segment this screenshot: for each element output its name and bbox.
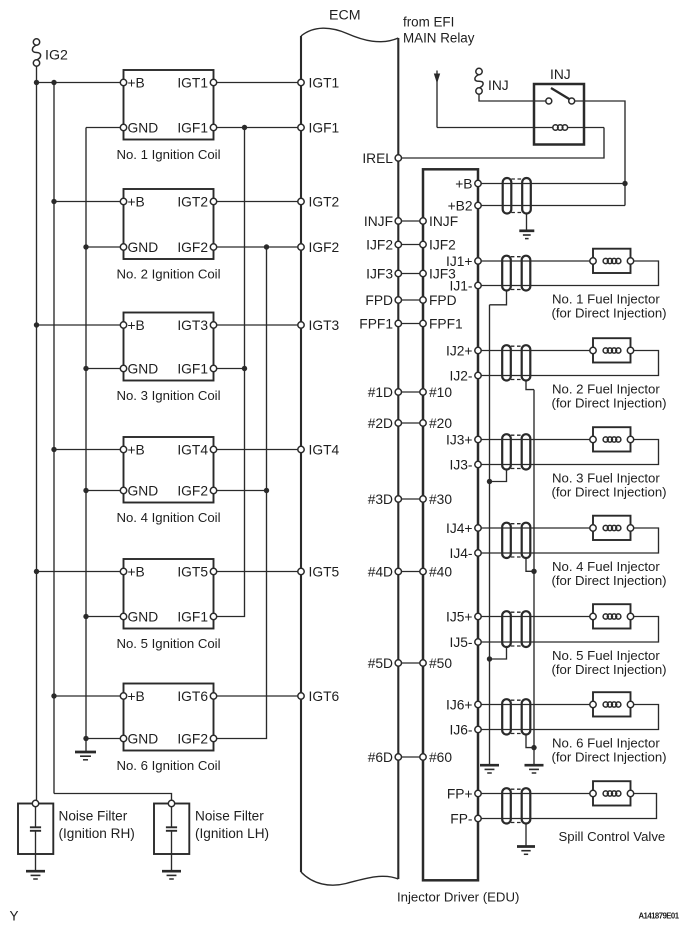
svg-text:No. 1 Fuel Injector: No. 1 Fuel Injector — [552, 292, 660, 307]
ECM terminal IGT3 — [298, 322, 304, 328]
fuel injector 5 — [593, 604, 631, 628]
svg-text:IJ2+: IJ2+ — [446, 344, 472, 359]
wire FP- loop — [481, 794, 656, 819]
junction dot GND coil 5 — [83, 614, 88, 619]
ground below GND bus — [75, 751, 96, 754]
noise filter (LH) box — [154, 804, 189, 855]
svg-text:+B2: +B2 — [448, 199, 473, 214]
EDU terminal FP+ — [475, 790, 481, 796]
wire FP+ to valve — [481, 793, 590, 795]
ECM terminal IGF2 — [298, 244, 304, 250]
wire IGF2 coil4 stub — [216, 490, 266, 492]
svg-text:FPD: FPD — [365, 293, 393, 308]
wire to noise filter LH — [54, 794, 172, 801]
cross wire #1D to #10 — [402, 391, 420, 393]
svg-text:GND: GND — [128, 240, 159, 255]
cross wire IJF2 to IJF2 — [402, 244, 420, 246]
junction dot +B coil 3 — [34, 322, 39, 327]
svg-text:+B: +B — [128, 689, 145, 704]
svg-text:Noise Filter: Noise Filter — [59, 809, 128, 824]
wire shield drain IJ3 — [490, 470, 507, 482]
wire +B — [481, 183, 625, 185]
ECM right edge — [397, 38, 399, 879]
svg-text:+B: +B — [128, 76, 145, 91]
svg-text:IJ4+: IJ4+ — [446, 521, 472, 536]
svg-text:(Ignition LH): (Ignition LH) — [195, 826, 269, 841]
fuel injector 2 — [593, 338, 631, 362]
spill control valve box — [593, 781, 631, 805]
wire GND coil 2 — [86, 246, 121, 248]
EDU terminal IJ3+ — [475, 436, 481, 442]
ECM bottom wave — [301, 872, 398, 885]
svg-text:GND: GND — [128, 362, 159, 377]
cross wire IJF3 to IJF3 — [402, 273, 420, 275]
svg-text:#6D: #6D — [368, 750, 393, 765]
svg-text:IJ6+: IJ6+ — [446, 698, 472, 713]
wire shield drain FP — [525, 824, 527, 846]
svg-text:GND: GND — [128, 484, 159, 499]
ground noise filter LH — [162, 870, 181, 873]
svg-text:IJ6-: IJ6- — [450, 723, 473, 738]
svg-text:#60: #60 — [429, 750, 452, 765]
ECM top wave — [301, 28, 398, 42]
wire shield drain bus right — [533, 390, 535, 766]
cross wire #4D to #40 — [402, 571, 420, 573]
wire +B feed coil 3 — [37, 324, 121, 326]
ECM terminal IGT5 — [298, 568, 304, 574]
junction dot drain IJ3 — [487, 479, 492, 484]
shield IJ1 — [502, 256, 511, 291]
svg-text:Spill Control Valve: Spill Control Valve — [559, 829, 666, 844]
wire IJ4+ to injector — [481, 527, 590, 529]
wire IJ5+ to injector — [481, 616, 590, 618]
wire IGT1 to ECM — [216, 82, 298, 84]
wire vertical +B bus 1 — [36, 83, 38, 801]
shield IJ4 — [502, 523, 511, 558]
cross wire #3D to #30 — [402, 498, 420, 500]
wire relay coil out — [568, 127, 604, 129]
wire +B feed coil 6 — [54, 695, 121, 697]
ECM terminal IGT2 — [298, 198, 304, 204]
wire +B feed coil 5 — [37, 571, 121, 573]
junction dot +B coil 2 — [51, 199, 56, 204]
cross wire FPF1 to FPF1 — [402, 323, 420, 325]
noise filter (RH) box — [18, 804, 53, 855]
injector driver EDU box — [423, 169, 478, 880]
svg-text:+B: +B — [128, 443, 145, 458]
ECM terminal IREL — [395, 155, 401, 161]
ignition coil 4 box — [124, 437, 214, 503]
arrowhead EFI — [434, 74, 440, 84]
connector INJ fuse — [476, 68, 482, 74]
shield IJ3 — [502, 434, 511, 469]
ground drain bus right — [525, 764, 544, 767]
wire IJ3+ to injector — [481, 439, 590, 441]
svg-text:INJ: INJ — [488, 78, 509, 93]
svg-text:+B: +B — [128, 318, 145, 333]
relay coil — [553, 125, 558, 130]
wire relay coil in — [437, 127, 553, 129]
svg-text:#20: #20 — [429, 416, 452, 431]
EDU terminal IJ2+ — [475, 347, 481, 353]
wire GND coil 4 — [86, 490, 121, 492]
junction dot drain IJ5 — [487, 656, 492, 661]
svg-text:No. 4 Fuel Injector: No. 4 Fuel Injector — [552, 559, 660, 574]
EDU terminal IJ3- — [475, 461, 481, 467]
shield IJ6 — [502, 699, 511, 734]
svg-text:#4D: #4D — [368, 565, 393, 580]
svg-text:#1D: #1D — [368, 385, 393, 400]
shield +B/+B2 — [503, 178, 512, 214]
svg-text:#40: #40 — [429, 565, 452, 580]
svg-text:#50: #50 — [429, 656, 452, 671]
svg-text:(for Direct Injection): (for Direct Injection) — [552, 306, 667, 321]
svg-text:IGF2: IGF2 — [177, 732, 208, 747]
wire IGF2 bus — [216, 247, 266, 739]
svg-text:IJF2: IJF2 — [366, 238, 393, 253]
svg-text:IJ5-: IJ5- — [450, 635, 473, 650]
junction dot +B coil 6 — [51, 693, 56, 698]
ignition coil 5 box — [124, 559, 214, 629]
wire +B feed coil 4 — [54, 449, 121, 451]
EDU terminal +B — [475, 180, 481, 186]
shield IJ2 — [502, 345, 511, 380]
connector IG2 — [33, 39, 39, 45]
junction dot bus1 coil1 +B — [34, 80, 39, 85]
svg-text:from EFI: from EFI — [403, 15, 454, 30]
wire IJ6- loop — [481, 705, 658, 730]
svg-text:MAIN Relay: MAIN Relay — [403, 31, 475, 46]
wire IGF1 coil3 stub — [216, 368, 244, 370]
svg-text:IJ2-: IJ2- — [450, 369, 473, 384]
cross wire INJF to INJF — [402, 220, 420, 222]
ECM terminal IGT4 — [298, 446, 304, 452]
svg-text:INJF: INJF — [429, 214, 458, 229]
wire +B shield drain — [526, 214, 528, 230]
svg-text:IGT6: IGT6 — [177, 689, 208, 704]
junction dot drain IJ4 — [531, 569, 536, 574]
cross wire #5D to #50 — [402, 662, 420, 664]
junction dot GND coil 4 — [83, 488, 88, 493]
EDU terminal +B2 — [475, 202, 481, 208]
relay switch contact left — [546, 98, 552, 104]
wire shield drain IJ6 — [526, 735, 534, 748]
svg-text:GND: GND — [128, 732, 159, 747]
ignition coil 1 box — [124, 70, 214, 140]
svg-text:FP-: FP- — [450, 812, 472, 827]
wire IGF1 bus — [216, 128, 244, 617]
wire IJ4- loop — [481, 528, 658, 553]
wire vertical GND bus — [85, 128, 87, 753]
EDU terminal IJ1- — [475, 282, 481, 288]
svg-text:(for Direct Injection): (for Direct Injection) — [552, 750, 667, 765]
junction dot bus2 coil1 +B — [51, 80, 56, 85]
wire IGT2 to ECM — [216, 201, 298, 203]
svg-text:IGF1: IGF1 — [309, 121, 340, 136]
wire +B feed coil 2 — [54, 201, 121, 203]
fuel injector 4 — [593, 516, 631, 540]
EDU terminal IJ5+ — [475, 613, 481, 619]
junction dot IGF2 bus top — [264, 244, 269, 249]
wire +B2 — [481, 205, 625, 207]
wire relay switch out — [575, 101, 625, 206]
wire IGT6 to ECM — [216, 695, 298, 697]
svg-text:+B: +B — [128, 565, 145, 580]
svg-text:FPF1: FPF1 — [429, 317, 463, 332]
junction dot +B relay — [622, 181, 627, 186]
svg-text:GND: GND — [128, 610, 159, 625]
junction dot +B coil 4 — [51, 447, 56, 452]
wire IGF2 coil2 to ECM — [216, 246, 298, 248]
EDU terminal IJ6+ — [475, 701, 481, 707]
EDU terminal IJ1+ — [475, 258, 481, 264]
svg-text:IJ4-: IJ4- — [450, 546, 473, 561]
EDU terminal IJ5- — [475, 639, 481, 645]
wire GND coil 5 — [86, 616, 121, 618]
svg-text:No. 5 Ignition Coil: No. 5 Ignition Coil — [116, 636, 220, 651]
junction dot drain IJ6 — [531, 745, 536, 750]
wire IJ5- loop — [481, 617, 658, 643]
svg-text:IGF2: IGF2 — [177, 240, 208, 255]
svg-text:IGT4: IGT4 — [177, 443, 208, 458]
svg-text:(for Direct Injection): (for Direct Injection) — [552, 485, 667, 500]
ground noise filter RH — [26, 870, 45, 873]
wire shield drain IJ2 — [526, 381, 534, 390]
ignition coil 6 box — [124, 684, 214, 751]
svg-text:No. 6 Ignition Coil: No. 6 Ignition Coil — [116, 758, 220, 773]
svg-text:Injector Driver (EDU): Injector Driver (EDU) — [397, 890, 519, 905]
svg-text:A141879E01: A141879E01 — [638, 911, 679, 920]
EDU terminal IJ2- — [475, 372, 481, 378]
junction dot IGF1 coil3 — [242, 366, 247, 371]
ECM terminal IGF1 — [298, 124, 304, 130]
svg-text:#30: #30 — [429, 492, 452, 507]
svg-text:IJ1+: IJ1+ — [446, 254, 472, 269]
svg-text:No. 3 Ignition Coil: No. 3 Ignition Coil — [116, 388, 220, 403]
svg-text:No. 1 Ignition Coil: No. 1 Ignition Coil — [116, 147, 220, 162]
wire shield drain IJ4 — [526, 558, 534, 571]
svg-text:+B: +B — [455, 177, 472, 192]
ECM terminal IGT6 — [298, 693, 304, 699]
svg-text:ECM: ECM — [329, 8, 361, 24]
junction dot +B coil 5 — [34, 569, 39, 574]
EDU terminal IJ4+ — [475, 525, 481, 531]
wire GND coil 3 — [86, 368, 121, 370]
svg-text:(for Direct Injection): (for Direct Injection) — [552, 662, 667, 677]
svg-text:IJ1-: IJ1- — [450, 279, 473, 294]
svg-text:(Ignition RH): (Ignition RH) — [59, 826, 135, 841]
wire GND coil 1 to GND bus — [86, 127, 121, 129]
wire IJ2- loop — [481, 351, 658, 376]
svg-text:FP+: FP+ — [447, 787, 473, 802]
svg-text:IGF2: IGF2 — [309, 240, 340, 255]
wire IJ6+ to injector — [481, 704, 590, 706]
junction dot GND coil 3 — [83, 366, 88, 371]
ignition coil 2 box — [124, 189, 214, 259]
svg-text:GND: GND — [128, 121, 159, 136]
svg-text:FPD: FPD — [429, 293, 457, 308]
wire from EFI MAIN relay — [436, 71, 438, 128]
svg-text:IGT1: IGT1 — [177, 76, 208, 91]
relay switch blade — [551, 88, 569, 99]
wire shield drain IJ1 — [490, 291, 507, 305]
svg-text:IGT3: IGT3 — [309, 318, 340, 333]
svg-text:IGT5: IGT5 — [177, 565, 208, 580]
ground FP shield — [517, 845, 535, 848]
svg-text:#2D: #2D — [368, 416, 393, 431]
relay INJ box — [534, 84, 584, 145]
svg-text:No. 2 Fuel Injector: No. 2 Fuel Injector — [552, 382, 660, 397]
wire shield drain bus left — [489, 305, 491, 765]
wire GND coil 6 — [86, 738, 121, 740]
shield IJ5 — [502, 611, 511, 647]
svg-text:IJ5+: IJ5+ — [446, 610, 472, 625]
junction dot GND coil 6 — [83, 736, 88, 741]
wire IJ3- loop — [481, 440, 658, 465]
EDU terminal IJ4- — [475, 550, 481, 556]
svg-text:(for Direct Injection): (for Direct Injection) — [552, 396, 667, 411]
ECM left edge — [300, 36, 302, 872]
svg-text:No. 6 Fuel Injector: No. 6 Fuel Injector — [552, 736, 660, 751]
cross wire FPD to FPD — [402, 299, 420, 301]
svg-text:IGT5: IGT5 — [309, 565, 340, 580]
svg-text:INJ: INJ — [550, 67, 571, 82]
wire IG2 down to +B bus — [36, 66, 38, 82]
svg-text:IG2: IG2 — [45, 48, 68, 64]
svg-text:#10: #10 — [429, 385, 452, 400]
svg-text:IGF1: IGF1 — [177, 121, 208, 136]
svg-text:IJ3-: IJ3- — [450, 458, 473, 473]
svg-text:IGT2: IGT2 — [309, 195, 340, 210]
svg-text:IJF2: IJF2 — [429, 238, 456, 253]
fuel injector 3 — [593, 427, 631, 451]
ignition coil 3 box — [124, 313, 214, 381]
wire vertical +B bus 2 — [53, 83, 55, 794]
svg-text:IGF1: IGF1 — [177, 610, 208, 625]
svg-text:IJ3+: IJ3+ — [446, 433, 472, 448]
wire IGT5 to ECM — [216, 571, 298, 573]
wire IGT3 to ECM — [216, 324, 298, 326]
svg-text:IGT1: IGT1 — [309, 76, 340, 91]
wire IREL to relay coil — [402, 128, 605, 159]
wire IJ1- loop — [481, 261, 658, 286]
svg-text:IJF3: IJF3 — [366, 267, 393, 282]
svg-text:Noise Filter: Noise Filter — [195, 809, 264, 824]
wire IGF1 coil1 to ECM — [216, 127, 298, 129]
svg-text:No. 3 Fuel Injector: No. 3 Fuel Injector — [552, 471, 660, 486]
junction dot GND coil 2 — [83, 244, 88, 249]
svg-text:#5D: #5D — [368, 656, 393, 671]
svg-text:#3D: #3D — [368, 492, 393, 507]
svg-text:IGT4: IGT4 — [309, 443, 340, 458]
svg-text:IGT3: IGT3 — [177, 318, 208, 333]
cross wire #6D to #60 — [402, 756, 420, 758]
wire IGT4 to ECM — [216, 449, 298, 451]
cross wire #2D to #20 — [402, 422, 420, 424]
svg-text:Y: Y — [10, 909, 19, 924]
svg-text:IGT6: IGT6 — [309, 689, 340, 704]
svg-text:(for Direct Injection): (for Direct Injection) — [552, 573, 667, 588]
wire IJ2+ to injector — [481, 350, 590, 352]
svg-text:+B: +B — [128, 195, 145, 210]
junction dot IGF1 bus top — [242, 125, 247, 130]
wire shield drain IJ5 — [490, 647, 507, 659]
wire INJ fuse to relay — [479, 94, 546, 101]
ground drain bus left — [480, 764, 499, 767]
EDU terminal FP- — [475, 815, 481, 821]
fuel injector 6 — [593, 692, 631, 716]
svg-text:No. 4 Ignition Coil: No. 4 Ignition Coil — [116, 510, 220, 525]
svg-text:FPF1: FPF1 — [359, 317, 393, 332]
shield FP — [502, 788, 511, 823]
relay switch contact right — [569, 98, 575, 104]
wire +B feed coil 1 — [37, 82, 121, 84]
svg-text:IGF2: IGF2 — [177, 484, 208, 499]
svg-text:IGF1: IGF1 — [177, 362, 208, 377]
ground +B shield — [519, 229, 534, 232]
fuel injector 1 — [593, 249, 631, 273]
junction dot IGF2 coil4 — [264, 488, 269, 493]
svg-text:IGT2: IGT2 — [177, 195, 208, 210]
svg-text:No. 2 Ignition Coil: No. 2 Ignition Coil — [116, 267, 220, 282]
svg-text:INJF: INJF — [364, 214, 393, 229]
ECM terminal IGT1 — [298, 79, 304, 85]
EDU terminal IJ6- — [475, 726, 481, 732]
svg-text:IREL: IREL — [362, 151, 393, 166]
wire IJ1+ to injector — [481, 260, 590, 262]
svg-text:No. 5 Fuel Injector: No. 5 Fuel Injector — [552, 648, 660, 663]
